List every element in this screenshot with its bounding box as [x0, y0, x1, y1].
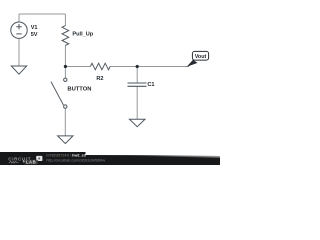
- labels: [31, 25, 155, 92]
- capacitor C1: [128, 83, 147, 86]
- wire V1 bottom stem: [18, 38, 20, 66]
- wire Pull_Up bottom to node A: [64, 46, 66, 79]
- wire Pull_Up top stem: [64, 14, 66, 26]
- resistor R2: [90, 63, 110, 70]
- wire top: V1 to Pull_Up: [19, 13, 65, 15]
- ground (under BUTTON): [58, 136, 73, 144]
- svg-text:m78235724S / hw2_s3: m78235724S / hw2_s3: [46, 153, 86, 157]
- wire V1 top stem: [18, 14, 20, 22]
- voltage source V1: [11, 22, 27, 38]
- node B junction dot: [136, 65, 139, 68]
- CircuitLab logo: [8, 156, 42, 165]
- wire C1 bottom stem: [136, 86, 138, 119]
- node A junction dot: [64, 65, 67, 68]
- svg-text:C1: C1: [147, 82, 154, 88]
- svg-text:5V: 5V: [31, 32, 38, 38]
- svg-text:R2: R2: [96, 76, 103, 82]
- switch BUTTON: [51, 78, 67, 108]
- svg-text:V1: V1: [31, 25, 38, 31]
- svg-text:Vout: Vout: [195, 54, 207, 60]
- svg-text:LAB: LAB: [26, 160, 36, 165]
- ground (under V1): [11, 66, 26, 74]
- wire button bottom stem: [64, 108, 66, 136]
- svg-text:Pull_Up: Pull_Up: [72, 32, 93, 38]
- watermark bar left tab: [0, 152, 86, 165]
- watermark bar right strip: [86, 155, 221, 165]
- wire node A to R2: [65, 66, 90, 68]
- wire R2 to Vout flag: [110, 66, 189, 68]
- resistor Pull_Up: [62, 26, 69, 46]
- wire C1 top stem: [136, 67, 138, 84]
- svg-text:http://circuitlab.com/c6593z64: http://circuitlab.com/c6593z6456f4w: [46, 158, 105, 162]
- flag Vout: [187, 51, 209, 67]
- ground (under C1): [129, 119, 145, 127]
- svg-text:BUTTON: BUTTON: [67, 87, 91, 93]
